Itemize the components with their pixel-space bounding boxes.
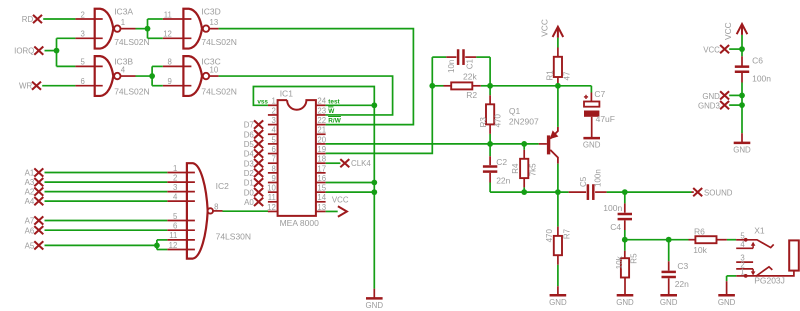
wire C7 top lead bbox=[590, 86, 592, 93]
wire R3 top lead bbox=[489, 95, 491, 104]
svg-text:R7: R7 bbox=[562, 228, 571, 239]
wire IC3B output to IC3C inputs bbox=[136, 75, 153, 77]
IC2 pin 5 stub bbox=[167, 220, 195, 222]
IC1 pin 3 stub bbox=[268, 124, 278, 126]
svg-text:W: W bbox=[328, 108, 335, 115]
junction C1/R2 left node bbox=[429, 83, 435, 89]
wire R6 right lead bbox=[717, 239, 727, 241]
svg-text:8: 8 bbox=[168, 58, 172, 67]
wire C3 bottom lead bbox=[668, 278, 670, 294]
svg-text:A1: A1 bbox=[25, 169, 35, 178]
svg-text:GND: GND bbox=[549, 298, 567, 307]
IC2 pin 4 stub bbox=[167, 200, 195, 202]
svg-text:R5: R5 bbox=[629, 253, 638, 264]
IC1 pin 4 stub bbox=[268, 133, 278, 135]
svg-text:9: 9 bbox=[271, 174, 275, 183]
svg-text:3: 3 bbox=[271, 116, 275, 125]
junction C4 top node bbox=[622, 189, 628, 195]
svg-text:GND: GND bbox=[660, 298, 678, 307]
junction R1/emitter node bbox=[555, 83, 561, 89]
net flag A1 bbox=[34, 168, 43, 176]
svg-text:100n: 100n bbox=[593, 169, 602, 187]
net flag RD bbox=[33, 15, 42, 23]
svg-text:A6: A6 bbox=[25, 226, 35, 235]
wire IC3A output to IC3D inputs bbox=[136, 28, 148, 30]
IC1 pin 15 stub bbox=[316, 191, 326, 193]
NOR gate IC3C 74LS02N bbox=[183, 56, 202, 96]
IC3B pin 5 stub bbox=[75, 65, 102, 67]
svg-text:R2: R2 bbox=[466, 90, 477, 100]
wire IC3D pin 13 to IC1 pin 22 R/W bbox=[219, 29, 414, 125]
IC3A pin 3 stub bbox=[75, 37, 102, 39]
svg-text:10n: 10n bbox=[447, 60, 456, 73]
svg-text:X1: X1 bbox=[754, 225, 765, 235]
svg-text:4: 4 bbox=[740, 240, 745, 249]
wire A5 to IC2 pins 11 and 12 bbox=[45, 244, 157, 246]
Q1 collector bbox=[550, 150, 558, 158]
wire RD to IC3A pin 2 bbox=[43, 18, 75, 20]
svg-text:22n: 22n bbox=[675, 279, 689, 289]
capacitor C4 bbox=[618, 213, 632, 216]
svg-text:13: 13 bbox=[210, 18, 219, 27]
svg-text:VCC: VCC bbox=[332, 195, 349, 204]
X1 jack body bbox=[789, 240, 799, 270]
ground symbol GND at X1 bbox=[726, 281, 728, 295]
X1 pin 5 stub and tip contact arm bbox=[736, 239, 746, 241]
svg-text:Q1: Q1 bbox=[509, 106, 521, 116]
IC1 pin 24 stub bbox=[316, 104, 326, 106]
ground symbol GND at R5 bbox=[624, 294, 626, 295]
IC2 pin 3 stub bbox=[167, 191, 195, 193]
wire VCC arrow down to C6 bbox=[741, 35, 743, 49]
wire IC1 pin 20 to Q1 base bbox=[326, 143, 539, 145]
svg-text:1: 1 bbox=[173, 164, 177, 173]
IC1 pin 17 stub bbox=[316, 172, 326, 174]
svg-text:2: 2 bbox=[271, 106, 275, 115]
wire R2 right lead bbox=[472, 85, 481, 87]
X1 ring contact arm bbox=[756, 267, 773, 277]
IC3B pin 4 output stub bbox=[121, 75, 136, 77]
svg-text:3: 3 bbox=[173, 183, 177, 192]
wire rail GND to GND3 bbox=[741, 95, 743, 105]
IC1 pin 18 stub bbox=[316, 162, 326, 164]
net flag D6 on IC1 pin 4 bbox=[254, 130, 263, 138]
X1 pin 1 stub and sleeve connection bbox=[736, 275, 746, 277]
IC3C pin 9 stub bbox=[163, 85, 192, 87]
svg-text:D0: D0 bbox=[244, 188, 255, 197]
wire GND flag to rail bbox=[729, 94, 742, 96]
wire R2 left lead bbox=[432, 85, 443, 87]
resistor R4 bbox=[520, 159, 528, 178]
svg-text:R6: R6 bbox=[694, 226, 705, 236]
IC3B pin 6 stub bbox=[75, 85, 102, 87]
svg-text:5: 5 bbox=[271, 135, 276, 144]
IC1 pin 11 stub bbox=[268, 201, 278, 203]
ground symbol GND at C3 bbox=[668, 294, 670, 295]
IC1 pin 21 stub bbox=[316, 133, 326, 135]
svg-text:100n: 100n bbox=[752, 73, 771, 83]
svg-text:GND: GND bbox=[733, 145, 751, 154]
svg-text:7: 7 bbox=[271, 155, 275, 164]
svg-text:A3: A3 bbox=[25, 178, 35, 187]
wire R1 bottom lead bbox=[557, 77, 559, 86]
wire A3 to IC2 pin 2 bbox=[45, 181, 168, 183]
wire C7 bottom lead bbox=[591, 117, 593, 137]
svg-text:GND3: GND3 bbox=[698, 102, 721, 111]
net flag D0 on IC1 pin 10 bbox=[254, 188, 263, 196]
svg-text:12: 12 bbox=[163, 30, 172, 39]
wire R5 bottom lead bbox=[624, 278, 626, 295]
svg-text:74LS02N: 74LS02N bbox=[201, 37, 236, 47]
IC2 pin 2 stub bbox=[167, 181, 195, 183]
IC2 pin 12 stub bbox=[167, 249, 195, 251]
wire IC1 pin 24 test to ground rail bbox=[326, 104, 375, 106]
IC2 pin 8 output stub bbox=[213, 210, 222, 212]
wire main node rail R2 to C7 bbox=[490, 85, 558, 87]
junction C2-rail bbox=[521, 189, 527, 195]
svg-text:470: 470 bbox=[545, 229, 554, 243]
svg-text:1: 1 bbox=[740, 268, 744, 277]
svg-text:RD: RD bbox=[22, 15, 34, 24]
svg-text:6: 6 bbox=[173, 222, 177, 231]
junction IC3B output node bbox=[149, 73, 155, 79]
svg-text:74LS02N: 74LS02N bbox=[114, 37, 149, 47]
net flag VCC bbox=[720, 45, 729, 53]
svg-text:11: 11 bbox=[169, 231, 177, 240]
wire IC1 pin 19 to C1/R2 left node bbox=[326, 57, 433, 153]
capacitor C7 polarized plus sign bbox=[584, 96, 588, 98]
junction collector-rail bbox=[555, 189, 561, 195]
wire X1 pin 1 to ground bbox=[727, 275, 737, 277]
wire C2 top lead bbox=[489, 144, 491, 156]
IC2 pin 1 stub bbox=[167, 172, 195, 174]
IC1 pin 10 stub bbox=[268, 191, 278, 193]
net flag GND bbox=[720, 91, 729, 99]
net flag D7 on IC1 pin 3 bbox=[254, 120, 263, 128]
X1 pin 4 stub and switch arrow up bbox=[736, 247, 753, 249]
svg-text:WR: WR bbox=[19, 82, 32, 91]
svg-text:6: 6 bbox=[271, 145, 275, 154]
wire C4 top lead bbox=[624, 192, 626, 203]
svg-text:17: 17 bbox=[317, 164, 326, 173]
IC3C pin 10 output stub bbox=[209, 75, 218, 77]
svg-text:19: 19 bbox=[317, 145, 326, 154]
IC1 pin 9 stub bbox=[268, 182, 278, 184]
svg-text:IORQ: IORQ bbox=[14, 47, 34, 56]
svg-text:3: 3 bbox=[81, 30, 85, 39]
svg-text:20: 20 bbox=[317, 135, 326, 144]
svg-text:4: 4 bbox=[271, 126, 276, 135]
wire IORQ to IC3A pin 3 and IC3B pin 5 bbox=[45, 50, 57, 52]
wire A4 to IC2 pin 4 bbox=[45, 200, 168, 202]
IC1 pin 13 stub bbox=[316, 210, 326, 212]
ground symbol GND top right bbox=[741, 133, 743, 143]
svg-text:11: 11 bbox=[164, 10, 172, 19]
svg-text:11: 11 bbox=[268, 193, 276, 202]
svg-text:22k: 22k bbox=[463, 71, 477, 81]
wire C5 left lead bbox=[569, 191, 586, 193]
svg-text:VCC: VCC bbox=[703, 46, 720, 55]
wire IC1 pin 16 to ground rail bbox=[326, 182, 375, 184]
junction VCC node bbox=[739, 46, 745, 52]
wire C1 right lead bbox=[465, 56, 476, 58]
net flag WR bbox=[32, 82, 41, 90]
svg-text:2: 2 bbox=[173, 173, 177, 182]
IC1 pin 16 stub bbox=[316, 182, 326, 184]
wire GND3 flag to rail bbox=[729, 104, 742, 106]
svg-text:R3: R3 bbox=[479, 117, 488, 128]
svg-text:C4: C4 bbox=[610, 222, 621, 232]
wire VCC arrow to R1 bbox=[557, 38, 559, 48]
svg-text:10: 10 bbox=[267, 184, 276, 193]
svg-text:12: 12 bbox=[267, 203, 276, 212]
Q1 base lead bbox=[539, 143, 547, 145]
IC IC1 MEA 8000 DIP-24 body bbox=[278, 100, 316, 216]
svg-text:D1: D1 bbox=[244, 179, 254, 188]
svg-text:9: 9 bbox=[168, 77, 172, 86]
net flag SOUND bbox=[693, 188, 702, 196]
wire R7 top lead bbox=[557, 192, 559, 227]
IC1 pin 2 stub bbox=[268, 114, 278, 116]
svg-text:4: 4 bbox=[121, 65, 126, 74]
svg-text:7k5: 7k5 bbox=[528, 163, 537, 176]
svg-text:C2: C2 bbox=[496, 157, 507, 167]
wire IC2 pin 8 to IC1 pin 12 bbox=[223, 210, 269, 212]
net flag GND3 bbox=[720, 101, 729, 109]
wire R5 top lead bbox=[624, 240, 626, 251]
svg-text:IC3D: IC3D bbox=[201, 6, 220, 16]
svg-text:A2: A2 bbox=[25, 188, 35, 197]
svg-text:R/W: R/W bbox=[328, 118, 341, 125]
junction R4/base node bbox=[521, 141, 527, 147]
wire to SOUND flag bbox=[625, 191, 692, 193]
wire R4 bottom lead bbox=[523, 178, 525, 187]
IC2 pin 6 stub bbox=[167, 229, 195, 231]
svg-text:22n: 22n bbox=[496, 176, 510, 186]
junction C1/R2 right node bbox=[487, 83, 493, 89]
svg-text:47uF: 47uF bbox=[596, 114, 615, 124]
net flag D1 on IC1 pin 9 bbox=[254, 178, 263, 186]
capacitor C6 bbox=[735, 65, 749, 68]
ground symbol GND main rail bbox=[373, 289, 375, 299]
svg-text:C7: C7 bbox=[594, 89, 605, 99]
NAND gate IC2 74LS30N bbox=[187, 163, 208, 258]
junction IORQ bbox=[54, 48, 60, 54]
IC1 pin 6 stub bbox=[268, 153, 278, 155]
svg-text:VCC: VCC bbox=[539, 19, 549, 37]
supply symbol VCC right arrow up bbox=[737, 24, 748, 35]
resistor R2 bbox=[451, 82, 472, 89]
resistor R1 bbox=[554, 57, 562, 77]
wire IC3C pin 10 to IC1 pin 23 W bbox=[219, 76, 393, 115]
net flag D5 on IC1 pin 5 bbox=[254, 140, 263, 148]
svg-text:A5: A5 bbox=[25, 242, 35, 251]
svg-text:D5: D5 bbox=[244, 140, 255, 149]
svg-text:14: 14 bbox=[317, 193, 326, 202]
svg-text:IC2: IC2 bbox=[216, 181, 230, 191]
IC1 pin 14 stub bbox=[316, 201, 326, 203]
wire A2 to IC2 pin 3 bbox=[45, 191, 168, 193]
wire R6 left lead bbox=[689, 239, 696, 241]
svg-text:A0: A0 bbox=[244, 198, 254, 207]
svg-text:test: test bbox=[328, 98, 340, 105]
svg-text:C3: C3 bbox=[677, 261, 688, 271]
svg-text:MEA 8000: MEA 8000 bbox=[280, 218, 319, 228]
wire audio rail C2 to C5 bbox=[490, 191, 569, 193]
wire C6 top lead bbox=[741, 49, 743, 56]
svg-text:C5: C5 bbox=[579, 176, 588, 187]
IC1 pin 23 stub bbox=[316, 114, 326, 116]
junction pin15-rail bbox=[371, 189, 377, 195]
IC3D pin 11 stub bbox=[163, 18, 192, 20]
wire vss net IC1 pin 1 loop over IC and ground rail bbox=[253, 87, 374, 289]
wire IC1 pin 15 to ground rail bbox=[326, 191, 375, 193]
svg-text:10k: 10k bbox=[693, 245, 707, 255]
junction C4 bottom node bbox=[622, 237, 628, 243]
svg-text:470: 470 bbox=[494, 114, 503, 128]
resistor R6 bbox=[695, 236, 716, 243]
wire C1 left lead bbox=[432, 56, 446, 58]
net flag D4 on IC1 pin 6 bbox=[254, 149, 263, 157]
wire Q1 emitter to R1 node bbox=[557, 86, 559, 127]
junction GND3 node bbox=[739, 102, 745, 108]
junction IC3A output node bbox=[145, 26, 151, 32]
IC2 pin 11 stub bbox=[167, 239, 195, 241]
wire R7 bottom lead bbox=[557, 255, 559, 265]
capacitor C3 bbox=[662, 271, 676, 274]
wire WR to IC3B pin 6 bbox=[42, 85, 75, 87]
svg-text:74LS30N: 74LS30N bbox=[216, 231, 251, 241]
svg-text:R1: R1 bbox=[546, 70, 555, 81]
transistor Q1 2N2907 base bar bbox=[547, 135, 550, 154]
net flag A3 bbox=[34, 178, 43, 186]
svg-text:6: 6 bbox=[81, 77, 85, 86]
svg-text:GND: GND bbox=[366, 301, 384, 310]
svg-text:C6: C6 bbox=[752, 56, 763, 66]
svg-text:8: 8 bbox=[271, 164, 275, 173]
wire C5 right lead bbox=[595, 191, 607, 193]
svg-text:4: 4 bbox=[173, 192, 178, 201]
svg-text:D7: D7 bbox=[244, 121, 254, 130]
wire C3 top lead bbox=[668, 240, 670, 262]
wire C1 right node down to R3 bbox=[489, 57, 491, 95]
svg-text:C1: C1 bbox=[465, 59, 474, 70]
NOR gate IC3D 74LS02N bbox=[183, 9, 202, 49]
svg-text:10: 10 bbox=[210, 65, 219, 74]
NOR gate IC3B 74LS02N bbox=[95, 56, 114, 96]
resistor R7 bbox=[554, 236, 562, 255]
svg-text:GND: GND bbox=[616, 298, 634, 307]
IC1 pin 20 stub bbox=[316, 143, 326, 145]
IC1 pin 1 stub bbox=[268, 104, 278, 106]
net flag A0 on IC1 pin 11 bbox=[254, 198, 263, 206]
svg-text:8: 8 bbox=[214, 203, 218, 212]
IC3A pin 2 stub bbox=[75, 18, 102, 20]
svg-text:IC3A: IC3A bbox=[114, 6, 133, 16]
wire Q1 collector to audio rail bbox=[557, 164, 559, 192]
svg-text:10k: 10k bbox=[615, 255, 624, 269]
svg-text:1: 1 bbox=[121, 18, 125, 27]
svg-text:74LS02N: 74LS02N bbox=[114, 87, 149, 97]
net flag A6 bbox=[34, 226, 43, 234]
svg-text:47: 47 bbox=[562, 71, 571, 80]
IC3C pin 8 stub bbox=[163, 65, 192, 67]
net flag A7 bbox=[34, 216, 43, 224]
svg-text:100n: 100n bbox=[603, 203, 622, 213]
capacitor C1 bbox=[457, 49, 460, 65]
NOR gate IC3A 74LS02N bbox=[95, 9, 114, 49]
junction A5 node bbox=[154, 243, 160, 249]
wire A7 to IC2 pin 5 bbox=[45, 220, 168, 222]
net flag A5 bbox=[34, 241, 43, 249]
supply symbol VCC on IC1 pin 13 arrow right bbox=[326, 210, 338, 212]
wire R4 top lead bbox=[523, 144, 525, 150]
capacitor C7 electrolytic plates bbox=[584, 102, 599, 107]
ground symbol GND at R7 bbox=[557, 286, 559, 295]
svg-text:IC1: IC1 bbox=[280, 88, 294, 98]
svg-text:D4: D4 bbox=[244, 150, 255, 159]
IC1 pin 22 stub bbox=[316, 124, 326, 126]
IC1 pin 8 stub bbox=[268, 172, 278, 174]
ground symbol GND at C7 bbox=[591, 137, 593, 138]
wire bottom rail C4 to R6 bbox=[625, 239, 689, 241]
junction GND node bbox=[739, 93, 745, 99]
svg-text:18: 18 bbox=[317, 155, 326, 164]
svg-text:1: 1 bbox=[271, 97, 275, 106]
X1 pin 3 stub bbox=[736, 261, 753, 263]
svg-text:SOUND: SOUND bbox=[704, 188, 733, 197]
wire A6 to IC2 pin 6 bbox=[45, 229, 168, 231]
svg-text:74LS02N: 74LS02N bbox=[201, 87, 236, 97]
svg-text:D2: D2 bbox=[244, 169, 254, 178]
svg-text:12: 12 bbox=[169, 241, 178, 250]
svg-text:GND: GND bbox=[718, 298, 736, 307]
capacitor C5 bbox=[587, 184, 590, 200]
IC3D pin 13 output stub bbox=[209, 28, 218, 30]
svg-text:23: 23 bbox=[317, 106, 326, 115]
junction test-rail bbox=[371, 102, 377, 108]
IC1 pin 19 stub bbox=[316, 153, 326, 155]
svg-text:13: 13 bbox=[317, 203, 326, 212]
net flag D3 on IC1 pin 7 bbox=[254, 159, 263, 167]
svg-text:R4: R4 bbox=[511, 163, 520, 174]
supply symbol VCC left arrow up bbox=[553, 27, 564, 38]
X1 pin 2 stub and switch arrow down bbox=[736, 268, 753, 270]
wire C6 bottom lead bbox=[741, 73, 743, 83]
junction pin16-rail bbox=[371, 180, 377, 186]
svg-text:VCC: VCC bbox=[723, 22, 733, 40]
svg-text:D3: D3 bbox=[244, 159, 255, 168]
capacitor C2 bbox=[483, 165, 497, 168]
wire A1 to IC2 pin 1 bbox=[45, 172, 168, 174]
svg-text:2: 2 bbox=[81, 10, 85, 19]
net flag IORQ bbox=[34, 47, 43, 55]
svg-text:24: 24 bbox=[317, 97, 326, 106]
svg-text:A7: A7 bbox=[25, 217, 35, 226]
svg-text:2N2907: 2N2907 bbox=[509, 116, 539, 126]
junction C3 node bbox=[666, 237, 672, 243]
wire R3 bottom lead bbox=[489, 124, 491, 133]
resistor R5 bbox=[621, 258, 629, 277]
net flag A4 bbox=[34, 197, 43, 205]
IC1 pin 7 stub bbox=[268, 162, 278, 164]
wire C2 bottom lead bbox=[489, 173, 491, 183]
svg-text:PG203J: PG203J bbox=[754, 275, 785, 285]
net flag A2 bbox=[34, 188, 43, 196]
wire C4 bottom lead bbox=[624, 220, 626, 230]
svg-text:vss: vss bbox=[257, 98, 268, 105]
svg-text:5: 5 bbox=[81, 58, 86, 67]
